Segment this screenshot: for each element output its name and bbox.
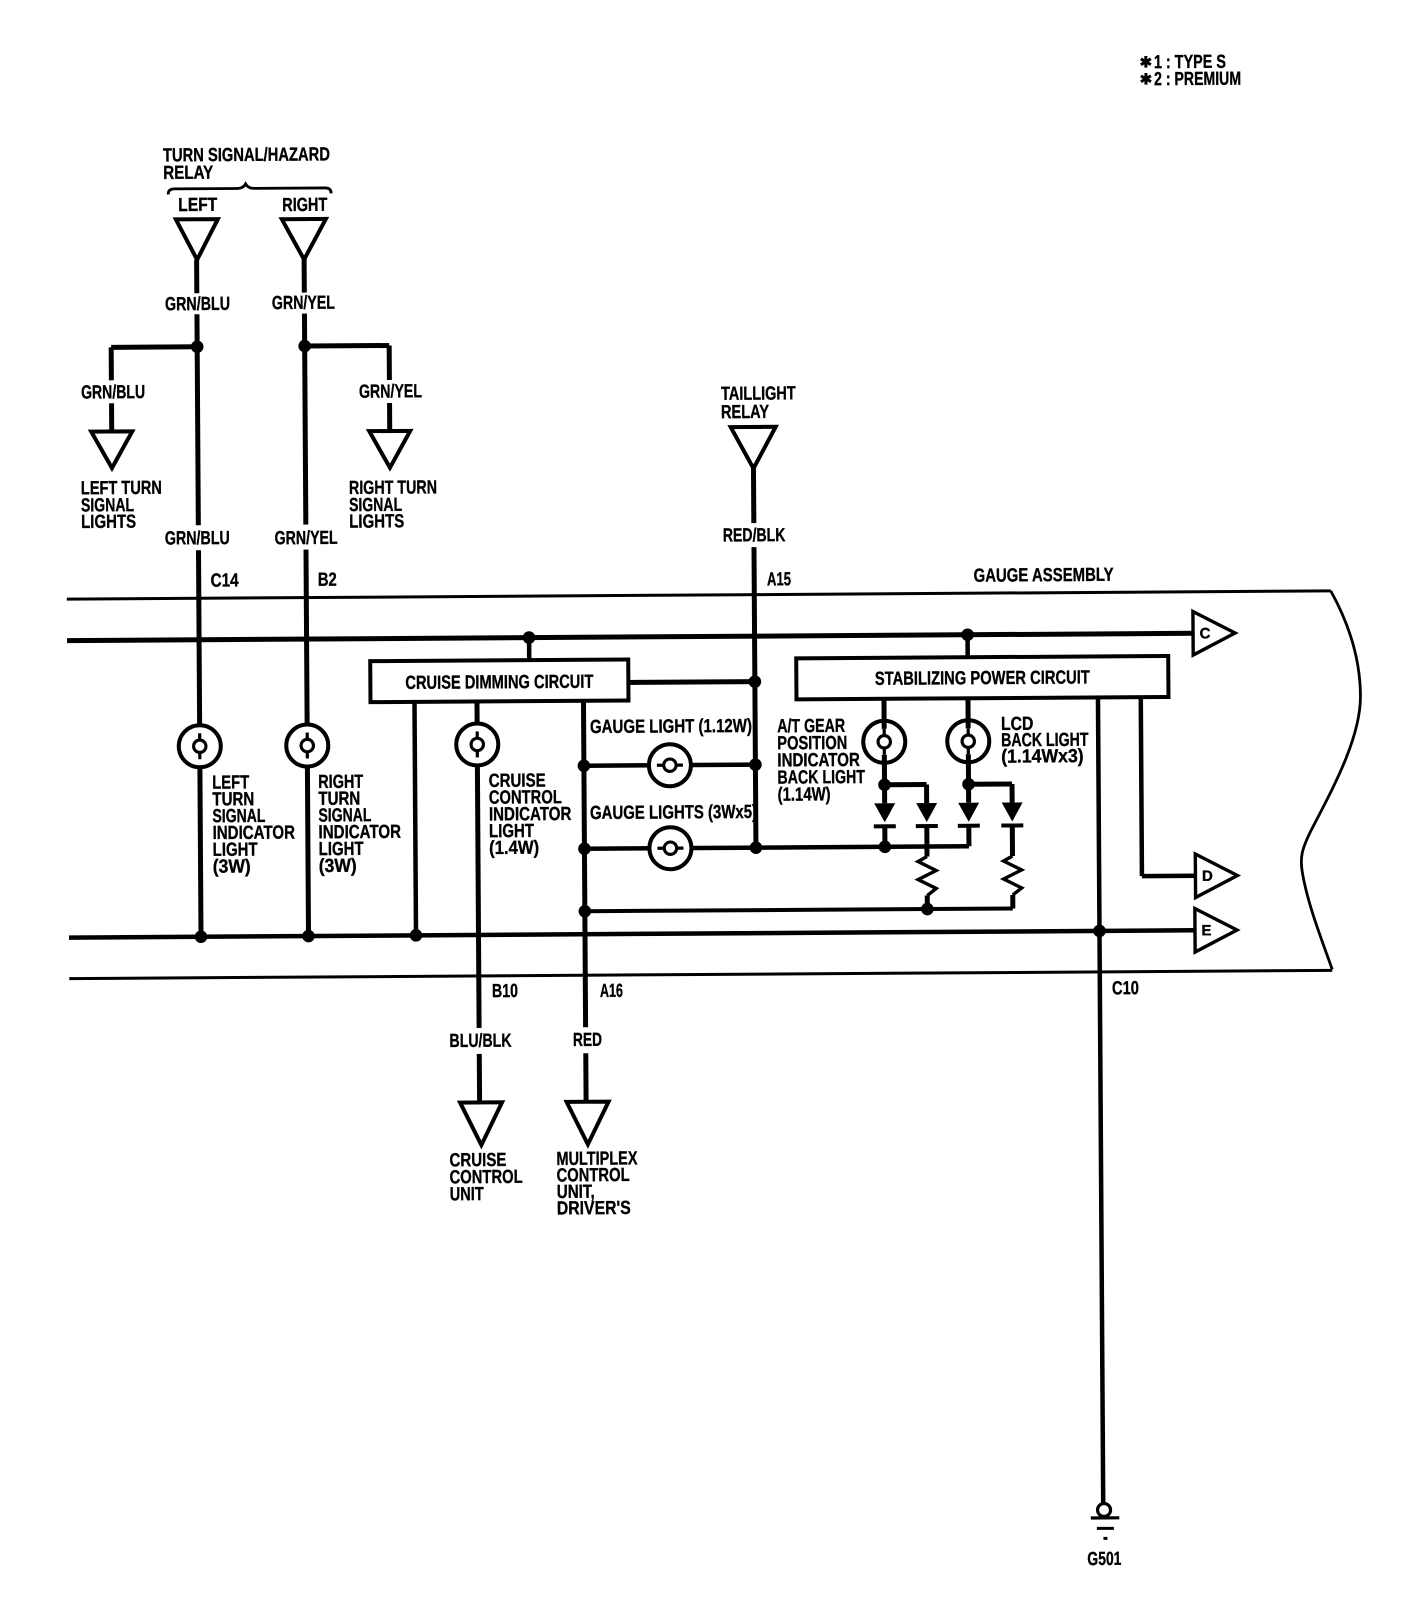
svg-text:STABILIZING POWER CIRCUIT: STABILIZING POWER CIRCUIT <box>875 667 1090 689</box>
svg-text:C14: C14 <box>211 570 239 591</box>
svg-text:LIGHTS: LIGHTS <box>81 512 136 533</box>
svg-text:(1.4W): (1.4W) <box>489 838 539 859</box>
svg-text:GAUGE LIGHTS (3Wx5): GAUGE LIGHTS (3Wx5) <box>590 802 757 824</box>
svg-text:GRN/BLU: GRN/BLU <box>165 294 230 315</box>
svg-text:(1.14W): (1.14W) <box>778 784 831 805</box>
svg-text:GRN/YEL: GRN/YEL <box>275 528 338 549</box>
svg-text:C: C <box>1200 625 1211 642</box>
svg-text:GRN/BLU: GRN/BLU <box>165 528 230 549</box>
svg-text:B10: B10 <box>492 981 518 1002</box>
svg-text:2 : PREMIUM: 2 : PREMIUM <box>1154 69 1241 91</box>
svg-text:GAUGE ASSEMBLY: GAUGE ASSEMBLY <box>974 565 1114 587</box>
svg-text:A15: A15 <box>767 569 791 590</box>
svg-text:GAUGE LIGHT (1.12W): GAUGE LIGHT (1.12W) <box>590 716 752 738</box>
svg-text:RELAY: RELAY <box>721 402 769 423</box>
svg-text:DRIVER'S: DRIVER'S <box>557 1198 631 1219</box>
svg-text:RED: RED <box>573 1030 602 1051</box>
svg-text:LIGHTS: LIGHTS <box>349 511 404 532</box>
svg-text:CRUISE DIMMING CIRCUIT: CRUISE DIMMING CIRCUIT <box>405 672 593 694</box>
svg-text:GRN/YEL: GRN/YEL <box>272 293 335 314</box>
svg-text:D: D <box>1202 868 1213 885</box>
svg-text:G501: G501 <box>1087 1549 1121 1570</box>
svg-text:A16: A16 <box>600 981 623 1002</box>
svg-text:UNIT: UNIT <box>450 1184 484 1205</box>
svg-text:GRN/BLU: GRN/BLU <box>81 382 145 403</box>
svg-text:(3W): (3W) <box>319 856 357 877</box>
svg-text:E: E <box>1201 922 1211 939</box>
svg-text:B2: B2 <box>318 570 337 591</box>
svg-text:C10: C10 <box>1112 978 1139 999</box>
svg-text:RELAY: RELAY <box>163 163 213 184</box>
svg-text:(1.14Wx3): (1.14Wx3) <box>1001 746 1084 768</box>
svg-text:LEFT: LEFT <box>178 195 217 216</box>
svg-text:RIGHT: RIGHT <box>282 195 327 216</box>
svg-text:RED/BLK: RED/BLK <box>723 525 786 546</box>
svg-text:GRN/YEL: GRN/YEL <box>359 381 422 402</box>
svg-text:(3W): (3W) <box>213 856 251 877</box>
svg-text:BLU/BLK: BLU/BLK <box>449 1031 511 1052</box>
